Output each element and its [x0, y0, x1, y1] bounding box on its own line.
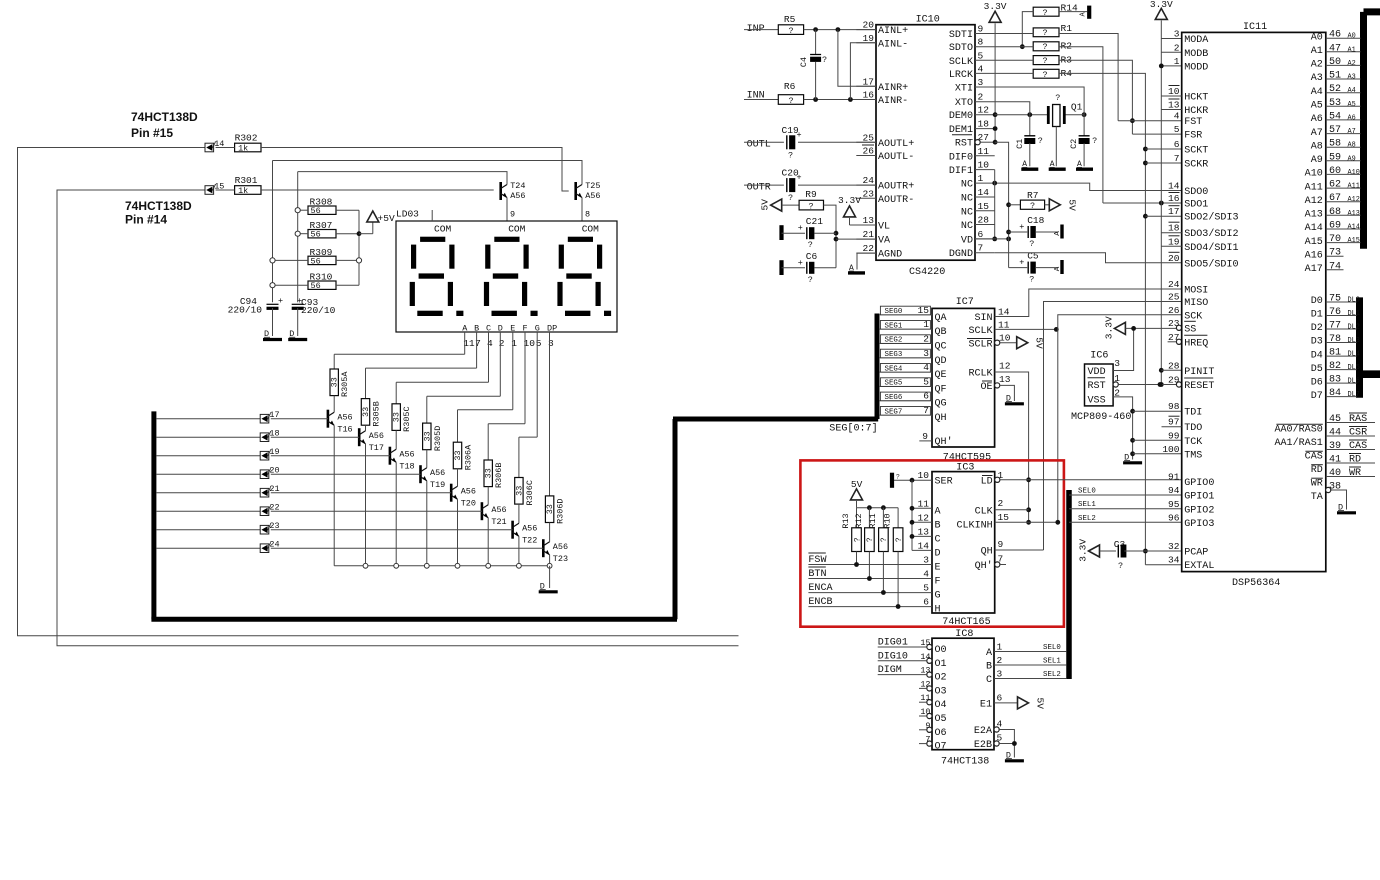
svg-text:?: ?: [1092, 136, 1097, 146]
svg-text:20: 20: [1168, 253, 1180, 264]
svg-text:O3: O3: [935, 686, 947, 697]
svg-text:10: 10: [978, 160, 990, 171]
svg-text:OE: OE: [981, 382, 993, 393]
svg-text:A: A: [986, 648, 993, 659]
svg-text:A12: A12: [1305, 196, 1323, 207]
svg-text:28: 28: [1168, 360, 1180, 371]
svg-text:RD: RD: [1349, 455, 1361, 466]
svg-text:B: B: [935, 520, 941, 531]
svg-text:T21: T21: [491, 517, 506, 527]
svg-text:DEM0: DEM0: [949, 111, 973, 122]
svg-text:O5: O5: [935, 714, 947, 725]
svg-text:A5: A5: [1348, 101, 1356, 109]
svg-text:SEL0: SEL0: [1043, 644, 1061, 652]
svg-text:78: 78: [1329, 334, 1341, 345]
svg-text:SEG6: SEG6: [885, 394, 903, 402]
svg-text:SDO1: SDO1: [1184, 200, 1208, 211]
svg-text:RESET: RESET: [1184, 381, 1214, 392]
svg-text:1: 1: [923, 319, 929, 330]
svg-text:EXTAL: EXTAL: [1184, 561, 1214, 572]
svg-text:WR: WR: [1349, 468, 1361, 479]
svg-text:4: 4: [1174, 111, 1180, 122]
svg-text:OUTL: OUTL: [747, 140, 771, 151]
svg-text:21: 21: [863, 229, 875, 240]
svg-text:A56: A56: [585, 191, 600, 201]
svg-text:34: 34: [1168, 555, 1180, 566]
svg-text:SCKT: SCKT: [1184, 146, 1208, 157]
svg-text:Pin #14: Pin #14: [125, 213, 167, 227]
svg-text:74: 74: [1329, 261, 1341, 272]
svg-text:53: 53: [1329, 98, 1341, 109]
svg-text:R2: R2: [1061, 41, 1073, 52]
svg-text:25: 25: [863, 132, 875, 143]
svg-text:AINL-: AINL-: [878, 39, 908, 50]
svg-text:A1: A1: [1311, 46, 1323, 57]
svg-text:?: ?: [788, 193, 793, 203]
svg-text:B: B: [986, 662, 992, 673]
svg-text:LRCK: LRCK: [949, 70, 974, 81]
svg-text:220/10: 220/10: [228, 305, 263, 316]
svg-text:E: E: [935, 563, 941, 574]
svg-text:CAS: CAS: [1305, 452, 1323, 463]
svg-text:12: 12: [918, 512, 930, 523]
svg-text:1: 1: [511, 338, 517, 349]
svg-text:T19: T19: [430, 480, 445, 490]
svg-text:A7: A7: [1311, 128, 1323, 139]
svg-text:A5: A5: [1311, 101, 1323, 112]
svg-text:TA: TA: [1311, 492, 1324, 503]
svg-text:A: A: [1054, 266, 1062, 271]
svg-text:A14: A14: [1305, 223, 1323, 234]
svg-text:QE: QE: [935, 370, 947, 381]
svg-text:SDO2/SDI3: SDO2/SDI3: [1184, 212, 1238, 224]
svg-text:4: 4: [487, 338, 493, 349]
svg-text:5V: 5V: [760, 199, 771, 211]
svg-text:82: 82: [1329, 361, 1341, 372]
svg-text:1: 1: [978, 173, 984, 184]
svg-text:COM: COM: [508, 224, 525, 235]
svg-text:20: 20: [863, 20, 875, 31]
svg-text:76: 76: [1329, 307, 1341, 318]
svg-text:XTO: XTO: [955, 98, 973, 109]
svg-text:23: 23: [863, 188, 875, 199]
svg-text:HCKT: HCKT: [1184, 93, 1208, 104]
svg-text:?: ?: [1042, 8, 1047, 18]
svg-text:46: 46: [1329, 30, 1341, 41]
svg-text:NC: NC: [961, 180, 973, 191]
svg-text:SCLK: SCLK: [949, 57, 974, 68]
svg-text:3: 3: [923, 348, 929, 359]
svg-text:DL5: DL5: [1348, 364, 1360, 372]
svg-text:DIGM: DIGM: [878, 665, 902, 676]
svg-text:R306B: R306B: [494, 463, 504, 488]
svg-text:IC7: IC7: [956, 297, 974, 308]
svg-text:A11: A11: [1348, 183, 1360, 191]
svg-text:R10: R10: [883, 513, 893, 528]
svg-text:SEL2: SEL2: [1078, 515, 1096, 523]
svg-text:A15: A15: [1305, 237, 1323, 248]
svg-text:74HCT138D: 74HCT138D: [131, 110, 198, 124]
svg-text:81: 81: [1329, 348, 1341, 359]
svg-text:33: 33: [392, 412, 402, 422]
svg-text:15: 15: [998, 512, 1010, 523]
svg-text:15: 15: [918, 305, 930, 316]
svg-text:4: 4: [978, 63, 984, 74]
svg-text:LD: LD: [981, 477, 993, 488]
svg-text:QH': QH': [935, 436, 953, 448]
svg-text:VL: VL: [878, 222, 890, 233]
svg-text:6: 6: [923, 597, 929, 608]
svg-text:PINIT: PINIT: [1184, 367, 1214, 378]
svg-text:A4: A4: [1311, 87, 1323, 98]
svg-text:2: 2: [1174, 42, 1180, 53]
svg-text:33: 33: [330, 377, 340, 387]
svg-text:MODA: MODA: [1184, 35, 1209, 46]
svg-text:?: ?: [1029, 239, 1034, 249]
svg-text:?: ?: [896, 474, 900, 481]
svg-text:40: 40: [1329, 468, 1341, 479]
svg-text:SDTI: SDTI: [949, 30, 973, 41]
svg-text:DL7: DL7: [1348, 391, 1360, 399]
svg-text:C6: C6: [806, 251, 818, 262]
svg-text:DGND: DGND: [949, 249, 973, 260]
svg-text:3: 3: [548, 338, 554, 349]
svg-text:GPIO1: GPIO1: [1184, 492, 1214, 503]
svg-text:2: 2: [499, 338, 505, 349]
svg-text:A3: A3: [1311, 73, 1323, 84]
svg-text:96: 96: [1168, 512, 1180, 523]
svg-text:RST: RST: [955, 139, 973, 150]
svg-text:SCLR: SCLR: [968, 339, 992, 350]
svg-text:23: 23: [1168, 318, 1180, 329]
svg-text:13: 13: [999, 374, 1011, 385]
svg-text:68: 68: [1329, 207, 1341, 218]
svg-text:T22: T22: [522, 536, 537, 546]
svg-text:D2: D2: [1311, 323, 1323, 334]
svg-text:100: 100: [1162, 444, 1179, 455]
svg-text:?: ?: [866, 537, 875, 542]
svg-text:T16: T16: [337, 425, 352, 435]
svg-text:33: 33: [453, 450, 463, 460]
svg-text:AOUTR+: AOUTR+: [878, 182, 914, 193]
svg-text:A7: A7: [1348, 128, 1356, 136]
svg-text:R306D: R306D: [556, 498, 566, 523]
svg-text:41: 41: [1329, 455, 1341, 466]
svg-text:56: 56: [311, 206, 321, 216]
svg-text:39: 39: [1329, 441, 1341, 452]
svg-text:2: 2: [997, 655, 1003, 666]
svg-text:R13: R13: [841, 513, 851, 528]
svg-text:E2B: E2B: [974, 740, 992, 751]
svg-text:A9: A9: [1311, 155, 1323, 166]
svg-text:H: H: [935, 605, 941, 616]
svg-text:IC8: IC8: [955, 629, 973, 640]
svg-text:DL2: DL2: [1348, 324, 1360, 332]
svg-text:R306A: R306A: [464, 444, 474, 470]
svg-text:SEG2: SEG2: [885, 337, 903, 345]
svg-text:5: 5: [1174, 124, 1180, 135]
svg-text:5V: 5V: [1035, 698, 1046, 710]
svg-text:16: 16: [1168, 193, 1180, 204]
svg-text:?: ?: [1042, 28, 1047, 38]
svg-text:AA1/RAS1: AA1/RAS1: [1274, 437, 1322, 449]
svg-text:26: 26: [863, 146, 875, 157]
svg-text:14: 14: [918, 540, 930, 551]
svg-text:A6: A6: [1348, 114, 1356, 122]
svg-text:?: ?: [1055, 93, 1060, 103]
svg-text:13: 13: [918, 526, 930, 537]
svg-text:D3: D3: [1311, 337, 1323, 348]
svg-text:T20: T20: [461, 499, 476, 509]
svg-text:D1: D1: [1311, 310, 1323, 321]
svg-text:COM: COM: [434, 224, 451, 235]
svg-text:14: 14: [978, 187, 990, 198]
svg-text:A14: A14: [1348, 224, 1360, 232]
svg-text:6: 6: [923, 391, 929, 402]
svg-text:D7: D7: [1311, 391, 1323, 402]
svg-text:1k: 1k: [238, 186, 248, 196]
svg-text:D5: D5: [1311, 364, 1323, 375]
svg-text:45: 45: [1329, 414, 1341, 425]
svg-text:84: 84: [1329, 388, 1341, 399]
svg-text:A9: A9: [1348, 155, 1356, 163]
svg-text:7: 7: [475, 338, 481, 349]
svg-text:FST: FST: [1184, 117, 1202, 128]
svg-text:SS: SS: [1184, 324, 1196, 335]
svg-text:SEG1: SEG1: [885, 322, 903, 330]
svg-text:SCK: SCK: [1184, 311, 1203, 322]
svg-text:2: 2: [923, 333, 929, 344]
svg-text:5: 5: [923, 583, 929, 594]
svg-text:SDTO: SDTO: [949, 43, 973, 54]
svg-text:C18: C18: [1027, 215, 1044, 226]
svg-text:BTN: BTN: [808, 569, 826, 580]
svg-text:3.3V: 3.3V: [1103, 316, 1114, 339]
svg-text:32: 32: [1168, 541, 1180, 552]
svg-text:12: 12: [999, 361, 1011, 372]
svg-text:52: 52: [1329, 84, 1341, 95]
svg-text:10: 10: [999, 333, 1011, 344]
svg-text:4: 4: [923, 362, 929, 373]
svg-text:?: ?: [1042, 42, 1047, 52]
svg-text:5V: 5V: [1066, 199, 1077, 211]
svg-text:PCAP: PCAP: [1184, 548, 1208, 559]
svg-text:69: 69: [1329, 221, 1341, 232]
svg-text:33: 33: [514, 486, 524, 496]
svg-text:SER: SER: [935, 477, 953, 488]
svg-text:AGND: AGND: [878, 250, 902, 261]
svg-text:+: +: [798, 223, 803, 233]
svg-text:QB: QB: [935, 327, 947, 338]
svg-text:SEL1: SEL1: [1078, 501, 1096, 509]
svg-text:SEG7: SEG7: [885, 408, 903, 416]
svg-text:?: ?: [1118, 561, 1123, 571]
svg-text:A6: A6: [1311, 114, 1323, 125]
svg-text:VD: VD: [961, 235, 973, 246]
svg-text:1: 1: [997, 642, 1003, 653]
svg-text:SDO0: SDO0: [1184, 187, 1208, 198]
svg-text:A2: A2: [1311, 60, 1323, 71]
svg-text:HREQ: HREQ: [1184, 338, 1208, 349]
svg-text:FSW: FSW: [808, 555, 827, 566]
svg-text:A13: A13: [1305, 210, 1323, 221]
svg-text:17: 17: [863, 76, 874, 87]
svg-text:11: 11: [918, 498, 930, 509]
svg-text:D: D: [935, 548, 941, 559]
svg-text:5: 5: [536, 338, 542, 349]
svg-text:DIF1: DIF1: [949, 166, 973, 177]
svg-text:6: 6: [997, 692, 1003, 703]
svg-text:CLKINH: CLKINH: [956, 520, 992, 531]
svg-text:95: 95: [1168, 499, 1180, 510]
svg-text:+5V: +5V: [378, 213, 395, 224]
svg-text:A1: A1: [1348, 46, 1356, 54]
svg-text:11: 11: [998, 319, 1010, 330]
svg-text:IC11: IC11: [1243, 22, 1267, 33]
svg-text:O0: O0: [935, 645, 947, 656]
svg-text:A: A: [1054, 231, 1062, 236]
svg-text:SEL0: SEL0: [1078, 488, 1096, 496]
svg-text:67: 67: [1329, 193, 1341, 204]
svg-text:75: 75: [1329, 294, 1341, 305]
svg-text:SCKR: SCKR: [1184, 160, 1208, 171]
svg-text:220/10: 220/10: [301, 305, 336, 316]
svg-text:T24: T24: [510, 181, 525, 191]
svg-text:D4: D4: [1311, 350, 1323, 361]
svg-text:MODD: MODD: [1184, 62, 1208, 73]
svg-text:?: ?: [880, 537, 889, 542]
svg-text:6: 6: [1174, 139, 1180, 150]
svg-text:R9: R9: [805, 189, 817, 200]
svg-text:C2: C2: [1069, 139, 1079, 149]
svg-text:VDD: VDD: [1088, 367, 1106, 378]
svg-text:56: 56: [311, 230, 321, 240]
svg-text:C21: C21: [806, 216, 823, 227]
svg-text:3: 3: [1174, 29, 1180, 40]
svg-text:A56: A56: [522, 524, 537, 534]
svg-text:QA: QA: [935, 313, 948, 324]
svg-text:?: ?: [822, 55, 827, 65]
svg-text:3.3V: 3.3V: [1078, 539, 1089, 562]
svg-text:TDO: TDO: [1184, 423, 1202, 434]
svg-text:QH: QH: [981, 547, 993, 558]
svg-text:A15: A15: [1348, 237, 1360, 245]
svg-text:DL6: DL6: [1348, 378, 1360, 386]
svg-text:D6: D6: [1311, 377, 1323, 388]
svg-text:51: 51: [1329, 71, 1341, 82]
svg-text:?: ?: [1042, 70, 1047, 80]
svg-text:QD: QD: [935, 356, 947, 367]
svg-text:RST: RST: [1088, 381, 1106, 392]
svg-text:R306C: R306C: [525, 480, 535, 505]
svg-text:Pin #15: Pin #15: [131, 126, 173, 140]
svg-text:R5: R5: [784, 14, 796, 25]
svg-text:IC3: IC3: [956, 463, 974, 474]
svg-text:A: A: [935, 506, 942, 517]
svg-text:3.3V: 3.3V: [984, 1, 1007, 12]
svg-text:18: 18: [1168, 223, 1180, 234]
svg-text:DL3: DL3: [1348, 337, 1360, 345]
svg-text:XTI: XTI: [955, 84, 973, 95]
svg-text:24: 24: [1168, 279, 1180, 290]
svg-text:74HCT138D: 74HCT138D: [125, 199, 192, 213]
svg-text:DP: DP: [547, 324, 557, 334]
svg-text:13: 13: [1168, 100, 1180, 111]
svg-text:4: 4: [923, 569, 929, 580]
svg-text:7: 7: [923, 405, 929, 416]
svg-text:DIG10: DIG10: [878, 651, 908, 662]
svg-text:24: 24: [863, 175, 875, 186]
svg-text:A0: A0: [1348, 33, 1356, 41]
svg-text:VA: VA: [878, 236, 891, 247]
svg-text:C1: C1: [1015, 139, 1025, 149]
svg-text:+: +: [1019, 222, 1024, 232]
svg-text:77: 77: [1329, 321, 1341, 332]
svg-text:A2: A2: [1348, 60, 1356, 68]
svg-text:7: 7: [1174, 153, 1180, 164]
svg-text:83: 83: [1329, 375, 1341, 386]
svg-text:IC10: IC10: [916, 14, 940, 25]
svg-text:59: 59: [1329, 152, 1341, 163]
svg-text:CAS: CAS: [1349, 441, 1367, 452]
svg-text:8: 8: [978, 37, 984, 48]
svg-text:MISO: MISO: [1184, 298, 1208, 309]
svg-text:60: 60: [1329, 166, 1341, 177]
svg-text:R1: R1: [1061, 23, 1073, 34]
svg-text:DIG01: DIG01: [878, 638, 908, 649]
svg-text:+: +: [797, 173, 802, 183]
svg-text:A56: A56: [337, 413, 352, 423]
svg-text:3.3V: 3.3V: [838, 195, 861, 206]
svg-text:NC: NC: [961, 221, 973, 232]
svg-text:62: 62: [1329, 180, 1341, 191]
svg-text:?: ?: [788, 150, 793, 160]
svg-text:3.3V: 3.3V: [1150, 0, 1173, 10]
svg-text:R6: R6: [784, 81, 796, 92]
svg-text:33: 33: [422, 431, 432, 441]
svg-text:QH': QH': [975, 560, 993, 572]
svg-text:IC6: IC6: [1090, 351, 1108, 362]
svg-text:3: 3: [978, 77, 984, 88]
svg-text:R305A: R305A: [340, 371, 350, 397]
svg-text:O4: O4: [935, 700, 947, 711]
svg-text:GPIO0: GPIO0: [1184, 478, 1214, 489]
svg-text:10: 10: [918, 470, 930, 481]
svg-text:50: 50: [1329, 57, 1341, 68]
svg-text:12: 12: [978, 105, 990, 116]
svg-text:33: 33: [484, 468, 494, 478]
svg-text:7: 7: [978, 243, 984, 254]
svg-text:70: 70: [1329, 234, 1341, 245]
svg-text:LD03: LD03: [396, 209, 419, 220]
svg-text:47: 47: [1329, 43, 1341, 54]
svg-text:AINR+: AINR+: [878, 83, 908, 94]
svg-text:?: ?: [1038, 136, 1043, 146]
svg-text:2: 2: [978, 92, 984, 103]
svg-text:AINR-: AINR-: [878, 96, 908, 107]
svg-text:SEG4: SEG4: [885, 365, 903, 373]
svg-text:33: 33: [361, 407, 371, 417]
svg-text:RD: RD: [1311, 465, 1323, 476]
svg-text:RAS: RAS: [1349, 414, 1367, 425]
svg-text:44: 44: [1329, 428, 1341, 439]
svg-text:22: 22: [863, 243, 875, 254]
svg-text:17: 17: [1168, 206, 1179, 217]
svg-text:GPIO3: GPIO3: [1184, 519, 1214, 530]
svg-text:E1: E1: [980, 699, 992, 710]
svg-text:1: 1: [1174, 56, 1180, 67]
svg-text:O7: O7: [935, 742, 947, 753]
